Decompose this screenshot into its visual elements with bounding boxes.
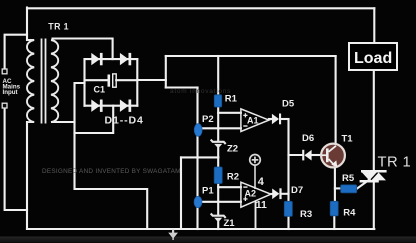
wire positive supply rail — [166, 55, 336, 57]
wire AC neutral down and right — [5, 108, 27, 210]
node bridge top edge — [85, 58, 138, 60]
svg-text:A1: A1 — [247, 115, 259, 125]
svg-text:D7: D7 — [291, 185, 303, 196]
diode D7 — [272, 188, 281, 199]
ground arrow — [168, 230, 178, 241]
wire D7 to or node — [281, 193, 288, 195]
wire bottom rail — [27, 228, 374, 230]
wire D6 to T1 base — [312, 154, 322, 156]
wire emitter to R5 — [335, 187, 341, 189]
wire Z2 anode to junction — [217, 148, 219, 158]
load box — [349, 43, 397, 70]
terminal AC input bottom — [2, 103, 7, 108]
wire junction row Z2 anode — [181, 156, 218, 158]
wire load bottom to triac — [373, 70, 375, 171]
wire rail down to collector — [335, 56, 337, 145]
wire A1 output to D5 — [269, 118, 272, 120]
svg-text:R4: R4 — [343, 207, 356, 218]
svg-text:C1: C1 — [94, 84, 106, 94]
wire C1 left lead — [85, 79, 108, 81]
resistor R5 — [341, 185, 357, 193]
diode D3 bridge bottom left — [91, 100, 102, 112]
wire AC phase to rail junction — [5, 35, 27, 69]
svg-text:A2: A2 — [245, 188, 257, 198]
wire or node column — [287, 119, 289, 202]
transformer TR1 secondary winding — [51, 40, 58, 122]
wire R1 top to rail — [217, 56, 219, 95]
diode D1 bridge top left — [91, 53, 102, 65]
svg-text:D1--D4: D1--D4 — [105, 115, 144, 127]
supply symbol plus circle — [250, 155, 261, 190]
resistor R3 — [284, 201, 292, 216]
wire C1 right lead — [116, 79, 137, 81]
resistor R4 — [330, 201, 338, 216]
wire primary bottom down — [26, 122, 28, 229]
capacitor C1 — [108, 74, 117, 87]
triac TR1 — [360, 170, 387, 183]
wire P1 bottom to rail — [196, 207, 198, 229]
svg-text:TR 1: TR 1 — [48, 22, 69, 32]
wire supply riser — [165, 56, 167, 88]
wire bridge minus staircase to bottom rail — [75, 83, 148, 229]
wire R1 bottom to Z2 — [217, 107, 219, 141]
wire R3 bottom to rail — [287, 217, 289, 230]
node bridge left edge — [83, 59, 85, 106]
terminal AC input top — [2, 69, 7, 74]
wire top rail to primary top — [26, 8, 28, 41]
svg-text:P1: P1 — [202, 185, 214, 196]
op-amp A1 input signs — [243, 113, 247, 127]
svg-text:R3: R3 — [300, 209, 312, 220]
diode D2 bridge top right — [120, 53, 131, 65]
wire P2 bottom to junction — [196, 136, 198, 157]
wire D5 to or node — [281, 118, 289, 120]
svg-text:11: 11 — [256, 199, 267, 211]
preset P2 — [194, 124, 202, 137]
transistor T1 — [321, 144, 345, 168]
svg-text:4: 4 — [258, 176, 265, 188]
diode D5 — [272, 114, 281, 125]
svg-text:DESIGNED AND INVENTED BY SWAGA: DESIGNED AND INVENTED BY SWAGATAM — [42, 168, 181, 175]
resistor R1 — [214, 95, 221, 107]
svg-text:P2: P2 — [202, 114, 214, 125]
wire T1 emitter to R4 — [334, 167, 336, 204]
transformer TR1 core — [42, 39, 46, 124]
wire A2 minus input — [218, 186, 241, 188]
diode D4 bridge bottom right — [120, 100, 131, 112]
wire ground branch left — [180, 157, 182, 229]
svg-text:R5: R5 — [342, 173, 355, 184]
wire top rail — [27, 7, 374, 9]
bottom gray strip — [0, 237, 416, 243]
wire R5 to triac gate — [357, 180, 370, 189]
wire P1 column top — [196, 157, 198, 197]
wire triac to bottom rail — [373, 181, 375, 229]
svg-text:Z2: Z2 — [227, 144, 238, 155]
svg-text:Z1: Z1 — [224, 218, 236, 229]
wire load top drop — [373, 8, 375, 43]
wire secondary bottom to dc minus — [52, 121, 75, 123]
svg-text:R1: R1 — [225, 93, 238, 104]
svg-text:atom innovations: atom innovations — [170, 88, 231, 95]
node bridge bottom edge — [85, 105, 138, 107]
op-amp A2 pin 11 line — [255, 201, 257, 229]
wire riser to P2 column — [166, 86, 198, 88]
svg-text:Input: Input — [3, 89, 18, 96]
svg-text:T1: T1 — [342, 134, 354, 145]
wire P2 wiper to A1 minus — [202, 127, 241, 129]
preset P1 — [194, 196, 202, 207]
resistor R2 — [214, 167, 222, 184]
wire A1 plus input — [218, 112, 241, 114]
svg-text:TR 1: TR 1 — [378, 154, 412, 170]
wire A2 output to D7 — [271, 193, 272, 195]
wire P1 wiper to A2 plus — [201, 201, 241, 203]
wire P2 P1 column — [196, 88, 198, 125]
op-amp A2 input signs — [243, 186, 247, 201]
diode D6 — [302, 150, 311, 161]
wire or node to D6 — [289, 154, 303, 156]
wire R2 bottom to Z1 column — [217, 184, 219, 215]
svg-text:D6: D6 — [302, 133, 314, 144]
svg-text:D5: D5 — [282, 99, 295, 110]
node bridge right edge — [136, 59, 138, 106]
transformer TR1 primary winding — [27, 40, 34, 122]
wire secondary top to bridge top — [53, 39, 113, 60]
wire junction to R2 — [217, 157, 219, 168]
wire R4 bottom to rail — [333, 216, 335, 229]
wire bridge plus stub — [137, 79, 166, 81]
zener Z2 — [211, 140, 226, 149]
svg-text:Load: Load — [354, 50, 392, 67]
svg-text:R2: R2 — [227, 171, 239, 182]
wire Z1 to bottom rail — [217, 220, 219, 229]
op-amp A2 — [241, 182, 271, 207]
op-amp A1 — [241, 109, 269, 132]
zener Z1 — [211, 214, 226, 223]
wire bridge bottom center drop — [75, 106, 114, 133]
